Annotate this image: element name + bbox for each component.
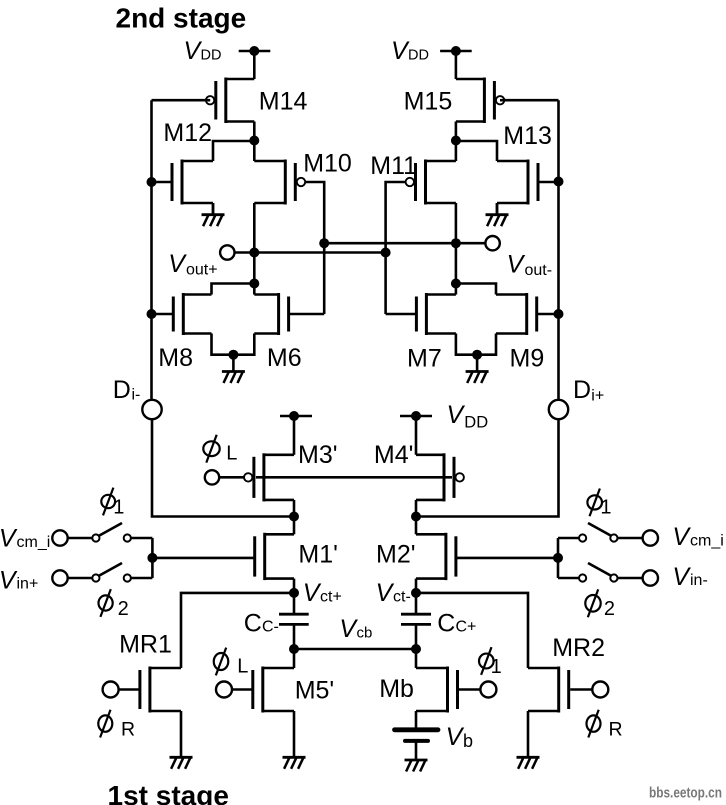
svg-text:DD: DD [408, 48, 429, 64]
svg-text:out-: out- [525, 262, 553, 279]
transistor M6 [254, 293, 324, 335]
wire Vout+ node down to M8/M6 drains [253, 253, 256, 284]
label phi_1 left [101, 488, 124, 519]
wire M6 source route [233, 334, 254, 355]
transistor M5' [253, 667, 294, 713]
transistor M7 [386, 293, 456, 335]
wire Vcb line [294, 648, 416, 651]
svg-text:D: D [573, 376, 591, 404]
wire M5' drain to Vcb node [293, 649, 296, 668]
wire VDD to M14 source [253, 51, 256, 79]
label Vcm_i left [0, 525, 50, 553]
wire phi_R terminal to MR1 gate [119, 688, 140, 691]
label Vct- [376, 579, 411, 607]
wire M8 source route [212, 334, 234, 355]
node Di+ terminal [549, 400, 568, 419]
svg-text:C-: C- [262, 619, 279, 636]
node M7/M9 source junction [472, 350, 482, 360]
node M8/M6 drain junction [249, 279, 259, 289]
transistor M15 [456, 78, 504, 124]
label Vct+ [303, 579, 342, 607]
label Vin- [672, 563, 707, 591]
svg-text:M7: M7 [407, 345, 442, 373]
wire Mb drain to Vcb node [415, 649, 418, 668]
node M8 gate on left rail [147, 309, 157, 319]
svg-text:in+: in+ [17, 576, 39, 593]
svg-text:2nd stage: 2nd stage [116, 3, 247, 34]
node Vcm_i left terminal [52, 530, 67, 545]
label Di+ [573, 376, 604, 405]
wire M15 drain node to M11 drain [455, 141, 458, 161]
node junction M11 gate on Vout+ line [381, 248, 391, 258]
ground under M5' [283, 756, 306, 769]
ground under M7/M9 [466, 355, 489, 383]
svg-text:DD: DD [201, 48, 222, 64]
svg-text:V: V [447, 401, 466, 429]
svg-text:C: C [244, 610, 262, 638]
svg-text:V: V [303, 579, 322, 607]
label CC+ [437, 610, 476, 638]
label phi_2 right [585, 589, 615, 620]
node Vct- [411, 588, 421, 598]
node junction M10 gate on Vout- line [319, 238, 329, 248]
wire left switch common [151, 538, 154, 578]
wire M3' drain to M1' drain [293, 500, 296, 534]
ground under M8/M6 [222, 355, 245, 383]
svg-text:L: L [237, 655, 248, 677]
svg-text:M3': M3' [298, 441, 338, 469]
svg-text:V: V [0, 567, 18, 595]
label phi_L [203, 435, 237, 465]
svg-text:R: R [121, 719, 135, 741]
wire M7 drain [455, 284, 458, 295]
svg-text:V: V [672, 523, 691, 551]
label Vb [446, 723, 473, 751]
node junction M10 source on Vout+ line [249, 248, 259, 258]
node phi_1b terminal [480, 682, 496, 698]
svg-text:M5': M5' [295, 677, 335, 705]
svg-text:in-: in- [690, 572, 708, 589]
wire M11 gate to cross-couple line [386, 182, 406, 314]
switch phi_2 left [68, 563, 153, 582]
ground under battery [405, 759, 428, 772]
wire right rail (M15 gate to Di+ node) [557, 100, 560, 400]
wire left rail (M14 gate to Di- node) [150, 100, 153, 400]
ground under M13 [486, 203, 509, 226]
switch phi_1 left [68, 523, 153, 542]
wire right switch common [557, 538, 560, 578]
wire M13 drain to M15 drain node [456, 141, 497, 161]
transistor MR1 [140, 667, 181, 713]
wire phi_L to M3' gate [219, 476, 244, 479]
node M13 gate on right rail [554, 177, 564, 187]
transistor M3' [244, 453, 294, 501]
node phi_L2 terminal [216, 682, 232, 698]
svg-text:bbs.eetop.cn: bbs.eetop.cn [649, 785, 722, 802]
wire M14 gate to left rail [152, 99, 211, 102]
label phi_L2 [214, 648, 249, 678]
svg-text:V: V [507, 251, 526, 279]
node M8/M6 source junction [228, 350, 238, 360]
node Vcb left junction [289, 644, 299, 654]
transistor M9 [496, 293, 559, 335]
svg-text:M14: M14 [259, 88, 308, 116]
svg-text:V: V [168, 250, 187, 278]
svg-text:R: R [609, 719, 623, 741]
wire M2' source to Vct- [415, 579, 418, 593]
ground under MR2 [517, 756, 540, 769]
power VDD left [184, 37, 271, 65]
transistor Mb [416, 667, 458, 713]
capacitor CC+ [401, 593, 431, 649]
svg-text:1: 1 [113, 497, 124, 519]
svg-text:V: V [672, 563, 691, 591]
svg-text:M12: M12 [163, 119, 212, 147]
svg-text:M1': M1' [298, 541, 338, 569]
wire M10 source to Vout+ line [253, 203, 256, 253]
wire M7 source route [456, 334, 477, 355]
node Vin+ terminal [52, 570, 67, 585]
node M14 drain [249, 136, 259, 146]
svg-text:MR2: MR2 [552, 634, 605, 662]
svg-text:C+: C+ [456, 619, 477, 636]
svg-text:out+: out+ [186, 262, 218, 279]
node M7/M9 drain junction [451, 279, 461, 289]
label Vin+ [0, 567, 38, 595]
wire left switch node to M1' gate [152, 557, 254, 560]
transistor M13 [497, 160, 559, 205]
svg-text:L: L [226, 443, 237, 465]
wire Vct- rail to MR2 [416, 593, 528, 668]
wire Di+ to first stage [416, 419, 559, 516]
node M9 gate on right rail [554, 309, 564, 319]
wire M6 drain [253, 284, 256, 295]
svg-text:V: V [376, 579, 395, 607]
wire Vout- line [324, 242, 485, 245]
wire M4' source to VDD [415, 416, 418, 455]
node phi_R right terminal [592, 682, 608, 698]
wire M9 source route [477, 334, 496, 355]
svg-text:1st stage: 1st stage [108, 780, 229, 805]
wire MR2 source to ground [527, 711, 530, 757]
svg-text:M6: M6 [267, 344, 302, 372]
label phi_1b [479, 647, 502, 678]
node Vin- terminal [643, 570, 658, 585]
transistor M4' [416, 453, 464, 501]
wire M10 gate to cross-couple line [305, 182, 324, 314]
node M3'/M1' drain junction (Di- tap) [289, 512, 299, 522]
svg-text:b: b [463, 731, 473, 751]
wire Di- to first stage [152, 419, 294, 516]
svg-text:ct-: ct- [393, 589, 411, 606]
transistor M12 [152, 160, 214, 205]
wire M4' drain to M2' drain [415, 500, 418, 534]
power VDD first stage left tick [280, 411, 312, 421]
node M12 gate on left rail [147, 177, 157, 187]
label Vcm_i right [672, 523, 723, 551]
wire M1' source to Vct+ [293, 579, 296, 593]
svg-text:1: 1 [600, 497, 611, 519]
svg-text:M15: M15 [404, 88, 453, 116]
switch phi_2 right [558, 563, 643, 582]
label CC- [244, 610, 279, 638]
svg-text:M9: M9 [510, 345, 545, 373]
wire MR1 source to ground [180, 711, 183, 757]
svg-text:i+: i+ [591, 388, 604, 405]
label Vout+ [168, 250, 217, 279]
node phi_R left terminal [103, 682, 119, 698]
svg-text:cm_i: cm_i [690, 533, 724, 550]
label phi_2 left [99, 589, 129, 620]
label Vout- [507, 251, 552, 280]
wire MR2 gate to phi_R [570, 688, 592, 691]
label Vcb [339, 615, 372, 643]
wire right switch node to M2' gate [456, 557, 558, 560]
svg-text:Mb: Mb [379, 675, 414, 703]
svg-text:M11: M11 [370, 152, 417, 180]
transistor M2' [416, 533, 456, 580]
svg-text:cm_i: cm_i [17, 534, 51, 551]
wire M8 drain route [212, 284, 255, 295]
wire Vout+ line [235, 251, 386, 254]
power VDD first stage right tick [400, 411, 432, 421]
transistor MR2 [528, 667, 569, 713]
transistor M10 [254, 160, 305, 205]
label phi_R right [587, 710, 623, 741]
capacitor CC- [279, 593, 309, 649]
wire M14 drain node to M10 drain [253, 141, 256, 161]
svg-text:D: D [113, 376, 131, 404]
svg-text:2: 2 [118, 598, 129, 620]
svg-text:V: V [446, 723, 465, 751]
node Vout- terminal [485, 236, 499, 250]
svg-text:MR1: MR1 [119, 631, 172, 659]
svg-text:M8: M8 [158, 344, 193, 372]
wire Vout- node down to M7/M9 drains [455, 243, 458, 283]
wire VDD to M15 source [455, 51, 458, 79]
node left switch common junction [147, 553, 157, 563]
wire M5' source to ground [293, 711, 296, 757]
label phi_R left [98, 710, 135, 741]
label phi_1 right [587, 489, 611, 519]
switch phi_1 right [558, 523, 643, 542]
label VDD first stage [447, 401, 489, 432]
svg-text:ct+: ct+ [320, 589, 342, 606]
svg-text:DD: DD [464, 414, 488, 432]
wire M15 gate to right rail [500, 99, 559, 102]
node M4'/M2' drain junction (Di+ tap) [411, 512, 421, 522]
ground under MR1 [170, 756, 193, 769]
svg-text:C: C [437, 610, 455, 638]
svg-text:cb: cb [357, 625, 373, 642]
svg-text:1: 1 [491, 656, 502, 678]
wire Vct+ rail to MR1 [181, 593, 294, 668]
wire Mb gate to phi_1b [459, 688, 480, 691]
wire phi_L2 to M5' gate [232, 688, 253, 691]
battery Vb [395, 730, 439, 760]
node Vcm_i right terminal [643, 530, 658, 545]
transistor M8 [152, 293, 212, 335]
wire M14 drain [253, 122, 256, 142]
node Vcb right junction [411, 644, 421, 654]
wire M12 source to ground [212, 203, 215, 215]
node right switch common junction [553, 553, 563, 563]
svg-text:2: 2 [604, 598, 615, 620]
wire M12 drain to M14 drain node [213, 141, 254, 161]
wire M9 drain route [456, 284, 496, 295]
node Vct+ [289, 588, 299, 598]
node phi_L terminal [205, 470, 219, 484]
svg-text:M4': M4' [374, 441, 414, 469]
svg-text:V: V [0, 525, 18, 553]
wire M11 source to Vout- line [455, 203, 458, 243]
wire Mb source to battery [415, 711, 418, 728]
wire M15 drain [455, 122, 458, 142]
node M15 drain [451, 136, 461, 146]
svg-text:M2': M2' [376, 541, 416, 569]
node Vout+ terminal [220, 245, 234, 259]
svg-text:i-: i- [132, 387, 141, 404]
node junction M11 source on Vout- line [451, 238, 461, 248]
wire M13 source to ground [496, 203, 499, 215]
ground under M12 [202, 203, 225, 226]
wire M3'/M4' common gate line [256, 476, 452, 479]
svg-text:M13: M13 [503, 122, 552, 150]
wire M3' source to VDD [293, 416, 296, 455]
svg-text:M10: M10 [303, 150, 352, 178]
label Di- [113, 376, 141, 404]
power VDD right [391, 37, 472, 65]
transistor M11 [406, 160, 456, 205]
transistor M14 [206, 78, 254, 124]
transistor M1' [255, 533, 294, 580]
node Di- terminal [142, 400, 161, 419]
